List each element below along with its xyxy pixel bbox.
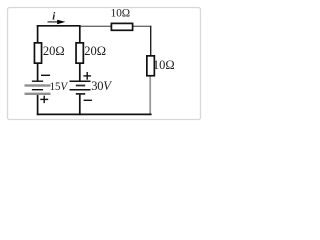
- wire: left battery bottom lead: [37, 95, 39, 115]
- current arrow: [48, 20, 66, 24]
- wire: right vertical (top part): [150, 26, 152, 56]
- resistor 10Ω (top): [111, 23, 132, 30]
- wire: left vertical branch: [37, 25, 39, 81]
- svg-text:20Ω: 20Ω: [43, 44, 65, 58]
- svg-text:10Ω: 10Ω: [111, 8, 131, 20]
- wire: top horizontal (left segment): [37, 25, 81, 27]
- resistor 10Ω (right): [147, 56, 155, 76]
- svg-text:15V: 15V: [50, 79, 69, 93]
- polarity − (30V bottom): [84, 99, 92, 101]
- resistor 20Ω (middle): [76, 43, 83, 63]
- svg-text:30V: 30V: [91, 79, 112, 93]
- wire: middle vertical branch: [79, 26, 81, 81]
- wire: middle battery bottom lead: [79, 94, 81, 115]
- svg-text:20Ω: 20Ω: [84, 44, 106, 58]
- wire: bottom horizontal: [37, 113, 152, 115]
- polarity + (30V top): [83, 72, 91, 80]
- polarity + (15V bottom): [40, 96, 48, 103]
- battery 30V: [70, 81, 91, 95]
- polarity − (15V top): [41, 74, 50, 76]
- wire: right vertical (below resistor): [149, 77, 151, 115]
- battery 15V: [25, 81, 51, 95]
- svg-text:10Ω: 10Ω: [153, 58, 175, 72]
- resistor 20Ω (left): [34, 43, 41, 63]
- wire: top horizontal (right segment to corner): [80, 25, 151, 27]
